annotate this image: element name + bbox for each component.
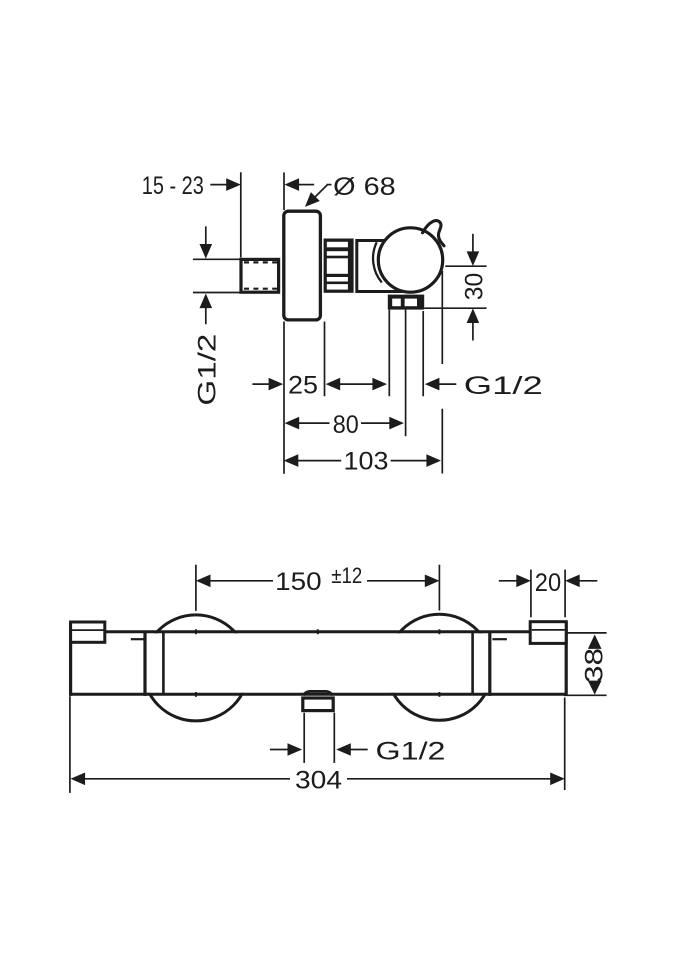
bar mask (hides circle arcs behind bar) [72, 633, 564, 693]
dimension 30 (vertical, right) [461, 234, 489, 341]
dimension 25 row [252, 372, 542, 400]
adapter ring behind handle (crescent arc) [373, 242, 382, 282]
inlet square fitting [241, 259, 279, 292]
dimension leader Ø 68 [301, 173, 396, 211]
union nut (threaded connector) [324, 239, 354, 293]
wire: wall surface extension line (upper segment) [283, 172, 285, 210]
svg-text:25: 25 [288, 372, 318, 400]
right safety-stop button [530, 622, 566, 644]
valve body [357, 241, 402, 292]
svg-text:30: 30 [461, 273, 489, 301]
outlet dome bump [303, 691, 332, 695]
dimension 103 row [284, 447, 441, 475]
svg-text:G1/2: G1/2 [193, 334, 221, 406]
svg-text:Ø 68: Ø 68 [333, 173, 396, 201]
dimension G1/2 outlet (front view) [270, 713, 446, 766]
svg-text:103: 103 [344, 447, 389, 475]
right bar divider [471, 632, 474, 695]
centre tick marks [196, 629, 440, 697]
svg-text:15 - 23: 15 - 23 [142, 172, 204, 200]
handle lever tab [423, 221, 444, 246]
svg-text:150: 150 [275, 568, 322, 596]
dimension 80 row [285, 411, 404, 439]
svg-text:80: 80 [333, 411, 359, 439]
wire: handle front extension line (upper) [441, 271, 443, 364]
left escutcheon circle [143, 615, 249, 721]
wire: 30-dim upper reference line [445, 265, 486, 267]
svg-text:±12: ±12 [331, 563, 362, 588]
dimension 304 [70, 696, 565, 794]
wire: handle front extension line (lower) [441, 409, 443, 474]
escutcheon (wall plate, side view) [284, 211, 321, 320]
dimension 15-23 [142, 172, 314, 200]
wire: outlet right extension line [422, 311, 424, 396]
dimension 38 (vertical, right) [564, 633, 608, 695]
dimension G1/2 inlet (vertical, left) [193, 226, 221, 405]
wire: outlet left extension line [388, 310, 390, 397]
thermostat handle (circle) [378, 228, 442, 292]
svg-text:G1/2: G1/2 [464, 372, 543, 400]
wire: escutcheon rear extension line for 25 [324, 322, 326, 397]
left safety-stop button [71, 622, 105, 642]
left end cap (temperature handle) [71, 622, 145, 696]
dimension 150 ±12 [196, 563, 440, 611]
wire: outlet centre extension line [405, 310, 407, 437]
svg-text:G1/2: G1/2 [376, 738, 446, 766]
right escutcheon circle [386, 614, 492, 720]
left bar divider [162, 632, 165, 695]
svg-text:20: 20 [535, 569, 561, 597]
wire: 30-dim lower reference line [424, 307, 486, 309]
wire: inlet square top extension line [193, 258, 241, 260]
wire: wall surface extension line (lower segment) [283, 322, 285, 474]
outlet nut (side view) [388, 295, 424, 310]
wire: inlet fitting front extension line [240, 172, 242, 257]
wire: inlet square bottom extension line [193, 292, 241, 294]
svg-text:38: 38 [580, 648, 608, 683]
bar bottom edge [71, 693, 567, 696]
dimension 20 [499, 569, 598, 618]
bar top edge [105, 630, 530, 633]
outlet nipple (front view) [303, 698, 333, 711]
svg-text:304: 304 [295, 766, 342, 794]
right end cap (volume handle) [490, 622, 566, 696]
